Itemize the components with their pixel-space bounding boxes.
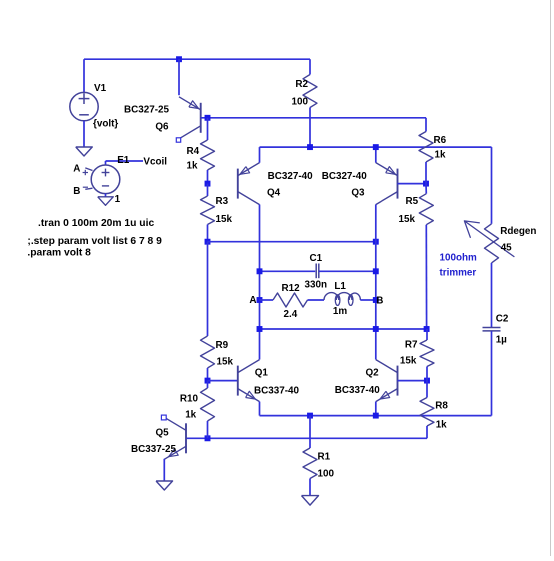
wire R8 top lead bbox=[426, 381, 428, 398]
resistor R7 bbox=[420, 340, 434, 367]
node junction top rail / Q6 emitter bbox=[176, 56, 182, 62]
wire R1 bottom lead bbox=[309, 479, 311, 496]
svg-text:R2: R2 bbox=[295, 79, 308, 90]
svg-text:R7: R7 bbox=[405, 339, 418, 350]
wire C1 row left bbox=[260, 270, 316, 272]
wire Q6 base to R6 bbox=[201, 117, 426, 119]
wire R6 bottom lead bbox=[425, 162, 427, 184]
resistor R12 bbox=[273, 293, 308, 307]
wire right column down to Rdegen bbox=[491, 147, 493, 224]
wire tank bottom rail bbox=[260, 328, 427, 330]
svg-text:100: 100 bbox=[318, 469, 335, 480]
svg-text:15k: 15k bbox=[400, 356, 417, 367]
svg-text:1µ: 1µ bbox=[496, 334, 507, 345]
svg-text:L1: L1 bbox=[334, 281, 346, 292]
node junction Q3 emitter on rail bbox=[373, 144, 379, 150]
wire R4 bottom lead bbox=[207, 170, 209, 184]
svg-text:BC337-40: BC337-40 bbox=[335, 385, 381, 396]
wire R7 top lead bbox=[426, 329, 428, 340]
svg-text:;.step param volt list 6 7 8 9: ;.step param volt list 6 7 8 9 bbox=[27, 236, 162, 247]
svg-text:.param volt 8: .param volt 8 bbox=[27, 248, 91, 259]
wire Q5 base rail bbox=[186, 437, 427, 439]
wire R3 bottom lead bbox=[207, 225, 209, 242]
node junction C1 right on B column bbox=[373, 268, 379, 274]
node junction R7/R8/Q2 base bbox=[424, 378, 430, 384]
node junction R9/R10/Q1 base bbox=[205, 378, 211, 384]
wire Q5 emitter lead bbox=[163, 459, 165, 481]
wire Rdegen to C2 bbox=[491, 263, 493, 327]
wire R10 top lead bbox=[207, 381, 209, 388]
svg-text:BC337-40: BC337-40 bbox=[254, 385, 300, 396]
ground below Q5 bbox=[156, 481, 173, 490]
wire top rail V1 to R2 bbox=[84, 58, 310, 60]
resistor R9 bbox=[201, 336, 215, 368]
node junction R4 top bbox=[205, 115, 211, 121]
wire R9 bottom lead bbox=[207, 368, 209, 381]
node junction R10 bottom bbox=[205, 435, 211, 441]
node junction R2 bottom on rail bbox=[307, 144, 313, 150]
transistor Q1 bbox=[237, 366, 239, 396]
wire Q4 collector lead (node A column) bbox=[259, 205, 261, 360]
svg-text:100: 100 bbox=[292, 97, 309, 108]
svg-text:1k: 1k bbox=[187, 161, 198, 172]
wire Q2 emitter lead bbox=[375, 402, 377, 416]
svg-text:V1: V1 bbox=[94, 83, 107, 94]
svg-text:100ohm: 100ohm bbox=[440, 252, 478, 263]
svg-text:trimmer: trimmer bbox=[440, 267, 477, 278]
wire Q6 emitter lead bbox=[178, 59, 180, 95]
svg-text:BC327-25: BC327-25 bbox=[124, 104, 170, 115]
svg-text:15k: 15k bbox=[216, 214, 233, 225]
wire Q3 base to R6 junction bbox=[398, 183, 427, 185]
transistor Q5 bbox=[185, 423, 187, 453]
svg-text:Q6: Q6 bbox=[155, 122, 169, 133]
svg-text:BC327-40: BC327-40 bbox=[322, 171, 368, 182]
open pin square Q6 collector bbox=[176, 138, 180, 142]
node junction cross wire at B column bbox=[373, 239, 379, 245]
node junction R6/R5/Q3 base bbox=[423, 181, 429, 187]
svg-text:B: B bbox=[376, 295, 383, 306]
wire R10 bottom lead bbox=[207, 421, 209, 438]
node junction tank rail R5/R7 bbox=[424, 326, 430, 332]
wire Q2 base bbox=[398, 380, 428, 382]
svg-text:Rdegen: Rdegen bbox=[500, 226, 536, 237]
resistor R3 bbox=[201, 196, 215, 225]
node junction Q2 emitter bbox=[373, 413, 379, 419]
wire R5 bottom long lead bbox=[425, 225, 427, 329]
svg-text:R10: R10 bbox=[180, 393, 199, 404]
node junction B bbox=[373, 297, 379, 303]
wire R8 bottom lead bbox=[426, 426, 428, 438]
resistor R5 bbox=[419, 194, 433, 225]
svg-text:Vcoil: Vcoil bbox=[143, 157, 167, 168]
transistor Q6 bbox=[200, 103, 202, 133]
svg-text:A: A bbox=[249, 295, 256, 306]
wire V1 bottom lead bbox=[83, 121, 85, 147]
svg-text:{volt}: {volt} bbox=[93, 119, 118, 130]
resistor R4 bbox=[201, 140, 215, 170]
svg-text:R12: R12 bbox=[282, 283, 301, 294]
svg-text:C1: C1 bbox=[310, 253, 323, 264]
wire Q3 collector lead (node B column) bbox=[375, 205, 377, 360]
inductor L1 bbox=[324, 293, 360, 300]
resistor R8 bbox=[420, 398, 434, 427]
svg-text:A: A bbox=[73, 164, 80, 175]
arrow of trimmer Rdegen bbox=[464, 221, 514, 257]
wire V1 top lead bbox=[83, 59, 85, 92]
wire R4 top lead bbox=[207, 118, 209, 140]
ground below V1 bbox=[76, 147, 93, 156]
resistor R1 bbox=[303, 448, 317, 479]
transistor Q4 bbox=[237, 169, 239, 199]
node junction A bbox=[257, 297, 263, 303]
resistor Rdegen bbox=[485, 224, 499, 263]
svg-text:R1: R1 bbox=[318, 452, 331, 463]
svg-text:1k: 1k bbox=[185, 409, 196, 420]
node junction tank rail B column bbox=[373, 326, 379, 332]
wire L1 to B bbox=[360, 299, 376, 301]
svg-text:R9: R9 bbox=[216, 340, 229, 351]
resistor R2 bbox=[303, 75, 317, 108]
svg-text:E1: E1 bbox=[117, 155, 130, 166]
wire C1 row right bbox=[319, 270, 376, 272]
wire PNP emitter rail bbox=[260, 146, 492, 148]
wire R3 top lead bbox=[207, 184, 209, 196]
wire R2 bottom lead bbox=[309, 108, 311, 148]
svg-text:Q3: Q3 bbox=[351, 187, 365, 198]
svg-text:330n: 330n bbox=[305, 279, 328, 290]
capacitor C1 bbox=[315, 264, 317, 279]
wire R12 to L1 bbox=[308, 299, 325, 301]
wire cross-coupling row bbox=[208, 241, 376, 243]
svg-text:.tran 0 100m 20m 1u uic: .tran 0 100m 20m 1u uic bbox=[38, 218, 154, 229]
dependent source E1 bbox=[91, 165, 120, 194]
resistor R10 bbox=[201, 388, 215, 421]
svg-text:1k: 1k bbox=[436, 419, 447, 430]
svg-text:Q4: Q4 bbox=[267, 187, 281, 198]
wire R3 junction down to R9 bbox=[207, 242, 209, 336]
svg-text:Q5: Q5 bbox=[156, 428, 170, 439]
svg-text:15k: 15k bbox=[399, 214, 416, 225]
transistor Q2 bbox=[397, 366, 399, 396]
node junction tank rail A column bbox=[257, 326, 263, 332]
svg-text:15k: 15k bbox=[217, 356, 234, 367]
svg-text:1k: 1k bbox=[435, 150, 446, 161]
svg-text:B: B bbox=[73, 186, 80, 197]
svg-text:R5: R5 bbox=[406, 196, 419, 207]
node junction R4/R3/Q4 base bbox=[205, 181, 211, 187]
svg-text:1m: 1m bbox=[333, 306, 347, 317]
svg-text:Q1: Q1 bbox=[255, 368, 269, 379]
svg-text:R8: R8 bbox=[435, 401, 448, 412]
open pin square Q5 collector bbox=[161, 415, 166, 420]
svg-text:R3: R3 bbox=[216, 196, 229, 207]
svg-text:BC327-40: BC327-40 bbox=[268, 171, 314, 182]
svg-text:R4: R4 bbox=[187, 146, 200, 157]
svg-text:45: 45 bbox=[501, 243, 512, 254]
wire C2 down to bottom corner bbox=[491, 331, 493, 415]
wire Q3 emitter stub bbox=[375, 147, 377, 163]
wire R1 top lead bbox=[309, 416, 311, 448]
node junction C1 left on A column bbox=[257, 268, 263, 274]
resistor R6 bbox=[419, 132, 433, 163]
capacitor C2 bbox=[483, 327, 501, 329]
wire Q1 emitter lead bbox=[259, 402, 261, 416]
wire A to R12 bbox=[260, 299, 274, 301]
node junction R1 top bbox=[307, 413, 313, 419]
node junction R3 bottom bbox=[205, 239, 211, 245]
svg-text:BC337-25: BC337-25 bbox=[131, 444, 177, 455]
svg-text:R6: R6 bbox=[434, 135, 447, 146]
wire Q4 emitter stub bbox=[259, 147, 261, 163]
wire Q1 base bbox=[208, 380, 238, 382]
wire R2 top lead bbox=[309, 59, 311, 74]
svg-text:2.4: 2.4 bbox=[284, 309, 298, 320]
wire R7 bottom lead bbox=[426, 367, 428, 381]
ground below E1 bbox=[98, 197, 114, 206]
voltage source V1 bbox=[70, 92, 98, 120]
svg-text:1: 1 bbox=[115, 194, 121, 205]
wire E1 output lead bbox=[106, 160, 144, 162]
svg-text:C2: C2 bbox=[496, 314, 509, 325]
canvas right border bbox=[550, 0, 552, 556]
svg-text:Q2: Q2 bbox=[366, 367, 380, 378]
wire R5 top lead bbox=[425, 184, 427, 194]
ground below R1 bbox=[302, 496, 319, 506]
wire E1 bottom lead bbox=[105, 194, 107, 197]
transistor Q3 bbox=[397, 169, 399, 199]
